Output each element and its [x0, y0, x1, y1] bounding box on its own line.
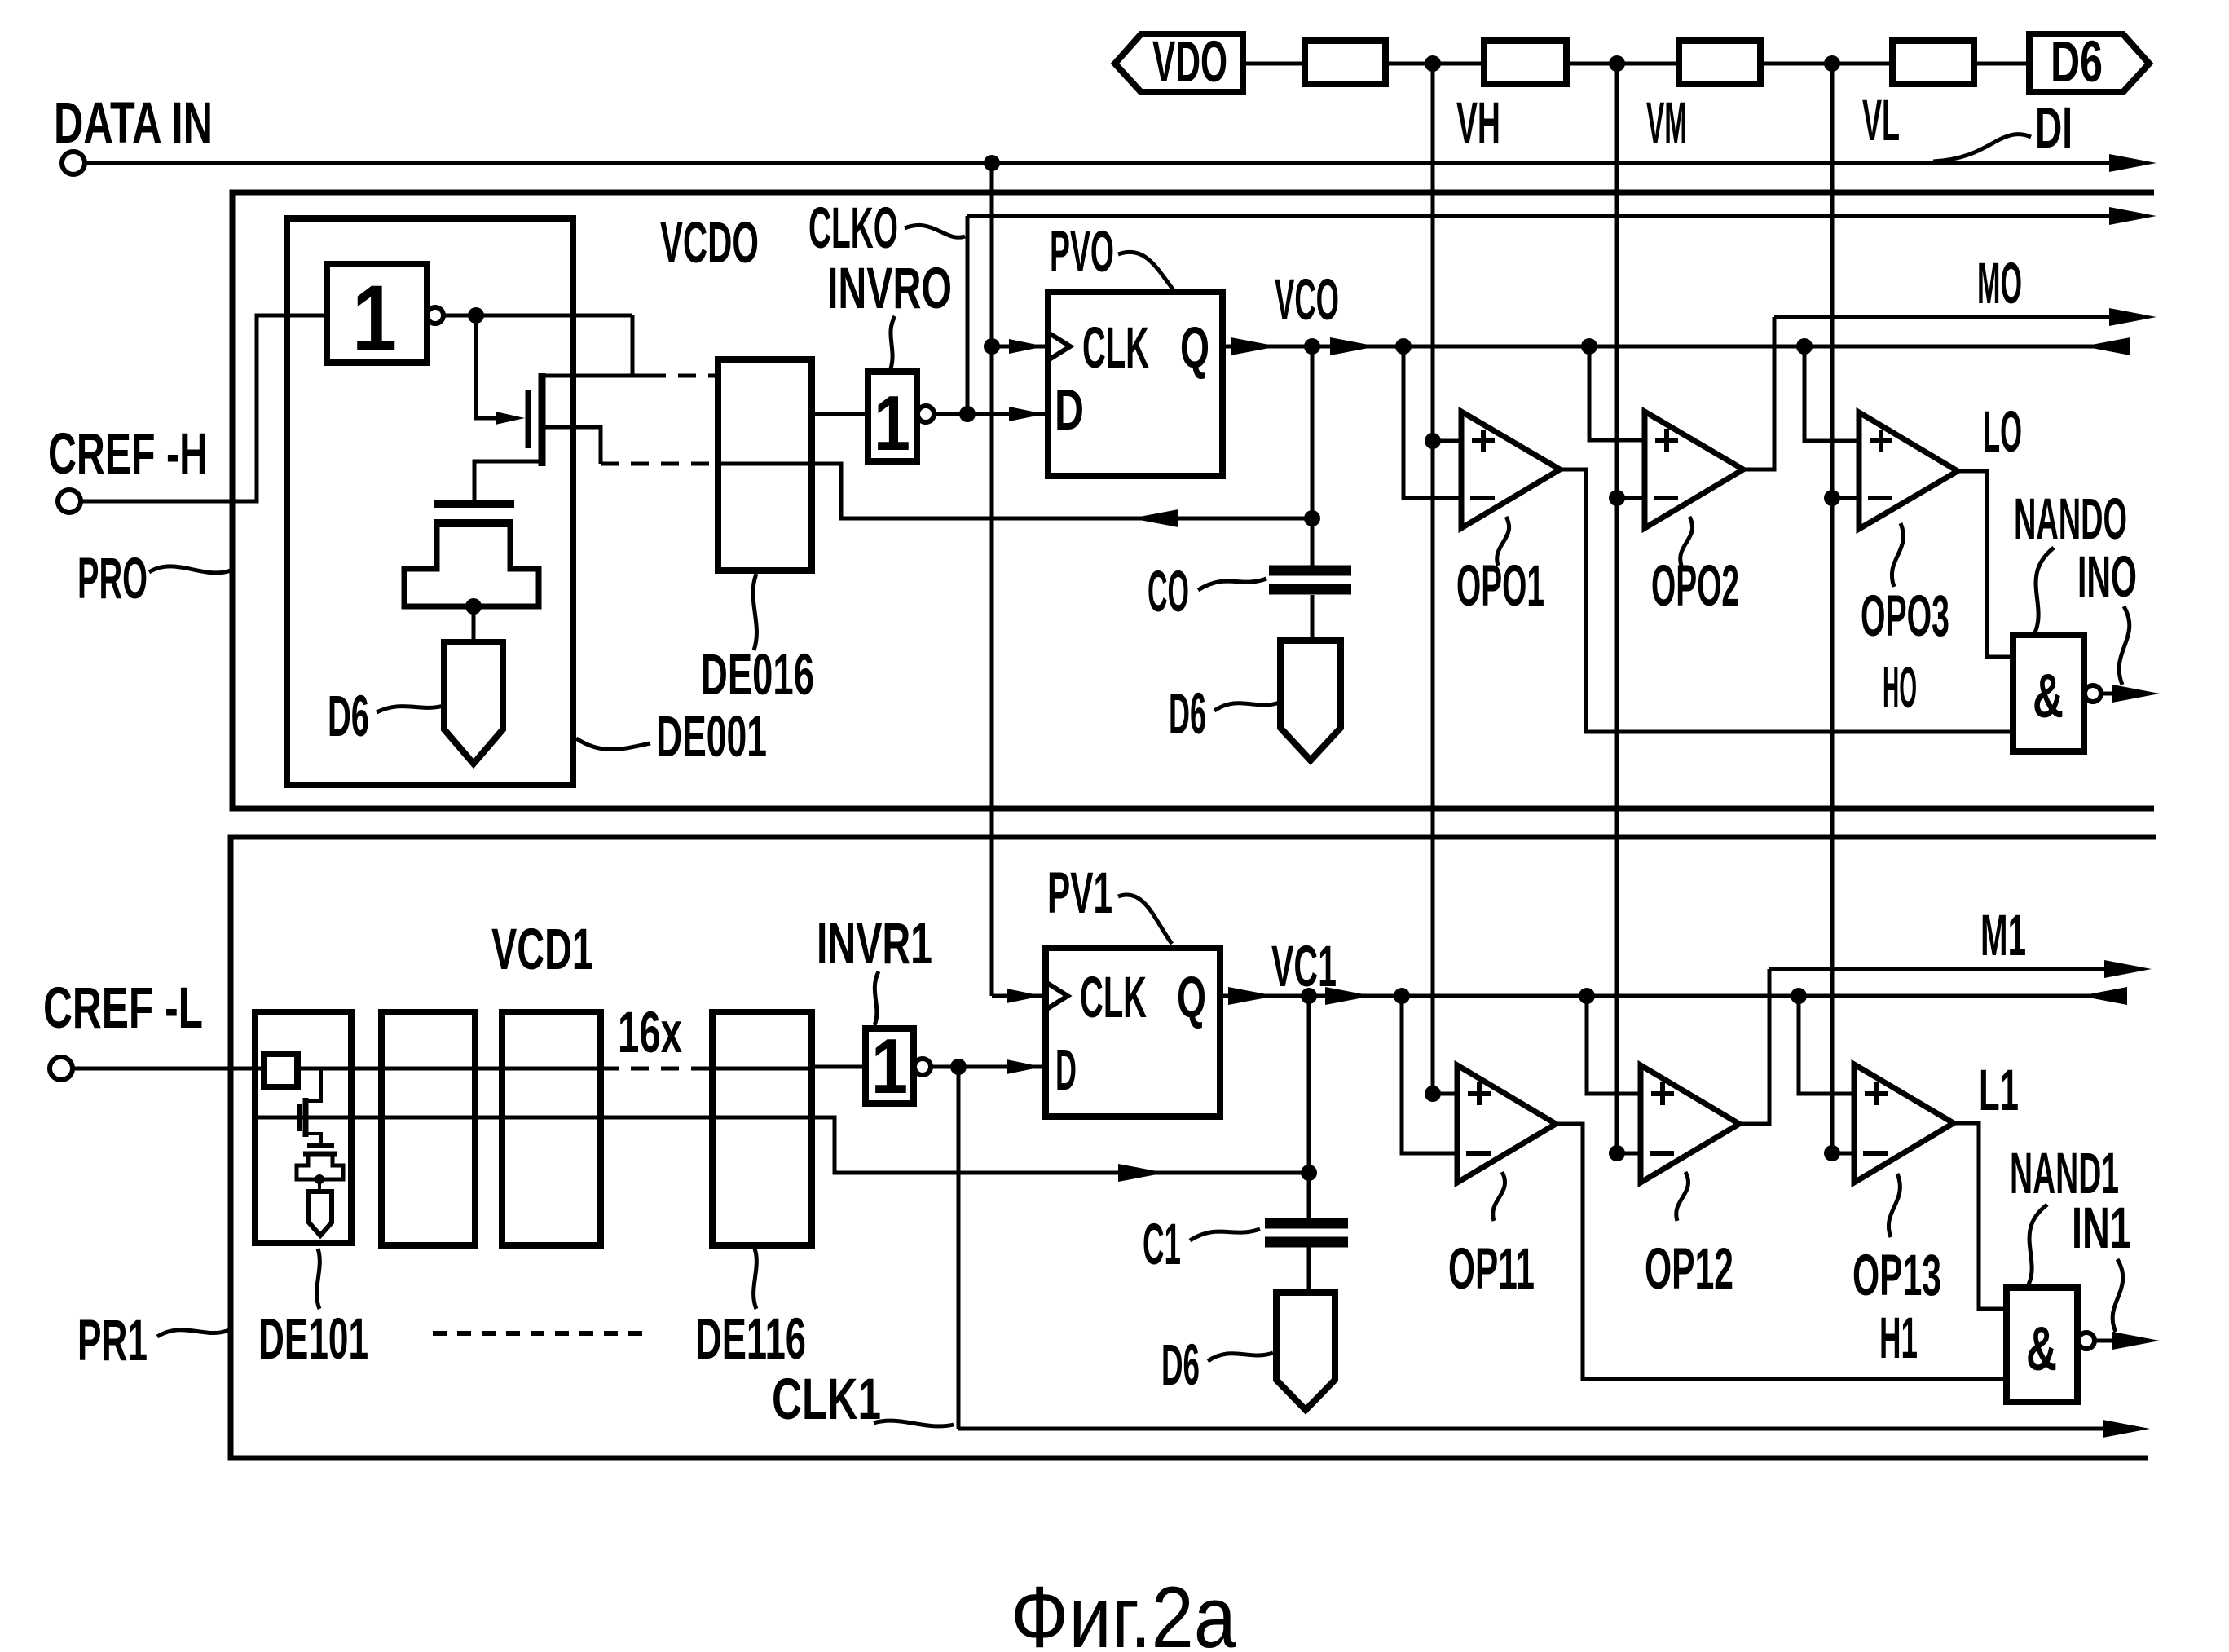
leader IN0 [2119, 606, 2130, 685]
svg-text:DI: DI [2035, 96, 2073, 161]
svg-text:1: 1 [352, 267, 397, 371]
wire rail VDO to R1 [1243, 62, 1305, 66]
wire DE016 divider [718, 462, 812, 466]
node VH tap [1425, 55, 1441, 72]
svg-text:H1: H1 [1879, 1306, 1918, 1371]
leader PRO [149, 566, 231, 573]
leader IN1 [2112, 1259, 2123, 1332]
op-amp OP01 [1461, 412, 1560, 528]
leader OP11 [1493, 1172, 1505, 1221]
svg-text:DATA IN: DATA IN [54, 91, 213, 156]
capacitor C0 [1269, 566, 1351, 576]
wire OP12 out to M1 [1739, 969, 1769, 1124]
wire CLK1 riser [957, 1067, 961, 1429]
node feedback C0 [1304, 510, 1320, 526]
svg-text:INO: INO [2077, 545, 2137, 610]
wire VL vertical [1830, 64, 1835, 1153]
resistor R4 [1892, 41, 1974, 84]
leader C1 [1190, 1229, 1260, 1240]
node Q2 source [465, 598, 482, 615]
svg-text:VCDO: VCDO [660, 211, 759, 275]
leader DE016 [753, 574, 756, 650]
ground pin D6 DE001 [444, 642, 503, 764]
wire C0 to ground pin [1311, 595, 1315, 641]
leader DI [1933, 134, 2031, 161]
leader OP03 [1892, 523, 1903, 587]
wire VC1 bus [1220, 994, 2108, 998]
dashes VCD1 separator [433, 1331, 648, 1336]
wire PV0 CLK input [992, 345, 1048, 349]
svg-text:L1: L1 [1979, 1059, 2019, 1123]
svg-text:D6: D6 [1169, 682, 1206, 747]
node VM minus lower [1609, 1145, 1625, 1161]
svg-text:PRO: PRO [77, 547, 148, 611]
op-amp OP03 [1859, 412, 1958, 529]
wire OP03 plus [1804, 346, 1859, 441]
svg-text:VH: VH [1456, 91, 1500, 156]
node DATA IN riser [984, 155, 1000, 171]
leader CLKO [905, 225, 965, 237]
flip-flop PV0 box [1048, 292, 1222, 476]
terminal DATA IN [62, 152, 85, 174]
wire VCD1 signal [297, 1067, 601, 1071]
svg-text:D6: D6 [1161, 1333, 1200, 1398]
op-amp OP11 [1457, 1065, 1556, 1183]
wire CLK0 bus [967, 214, 2111, 218]
wire OP11 plus [1433, 1092, 1457, 1096]
wire DE001 lower port [545, 427, 601, 464]
node VL minus lower [1824, 1145, 1840, 1161]
svg-text:VCO: VCO [1275, 268, 1339, 333]
pin PV1 clock triangle [1046, 982, 1068, 1010]
resistor R3 [1679, 41, 1760, 84]
block DE101 [255, 1012, 351, 1243]
node CLK0 junction [959, 406, 976, 422]
wire DE116 to INVR1 [812, 1065, 866, 1069]
svg-text:DE116: DE116 [695, 1307, 806, 1372]
wire IN0 out [2101, 692, 2119, 696]
svg-text:HO: HO [1883, 656, 1917, 720]
svg-text:CLKO: CLKO [808, 196, 898, 261]
transistor Q2 body [404, 526, 539, 606]
wire Q1 drain [545, 374, 632, 378]
transistor DE101b body [297, 1156, 343, 1179]
svg-text:1: 1 [871, 1023, 908, 1110]
transistor DE101 gate bar [297, 1104, 302, 1131]
node VC0 op02 [1581, 338, 1597, 355]
svg-text:PR1: PR1 [77, 1309, 148, 1373]
transistor DE101 channel bar [303, 1098, 309, 1137]
transistor DE101b gate bar [307, 1143, 334, 1148]
svg-text:C1: C1 [1143, 1213, 1181, 1277]
wire Q1 source [474, 461, 542, 500]
node VC0 C0 [1304, 338, 1320, 355]
svg-text:PVO: PVO [1050, 220, 1114, 284]
wire OP03 minus [1832, 496, 1859, 500]
wire dashed DE001 to DE016 upper [648, 374, 718, 378]
wire CREF-H input [80, 315, 327, 501]
transistor Q2 channel bar [434, 519, 513, 527]
leader NANDO [2035, 548, 2054, 632]
svg-text:Фиг.2а: Фиг.2а [1011, 1568, 1236, 1652]
wire INVR1 to PV1 D [931, 1065, 1046, 1069]
svg-text:16x: 16x [618, 1001, 682, 1065]
leader CO [1198, 579, 1266, 590]
transistor DE101b channel bar [303, 1152, 337, 1157]
wire dashed VCD1 signal [601, 1067, 712, 1071]
svg-text:OPO1: OPO1 [1456, 554, 1544, 619]
leader D6 C0 [1214, 703, 1280, 711]
leader D6 C1 [1208, 1353, 1273, 1361]
svg-text:DE016: DE016 [701, 643, 814, 707]
node VH plus [1425, 433, 1441, 449]
leader DE116 [754, 1249, 757, 1309]
block PR1 outline [231, 837, 2156, 1458]
pin PV0 clock triangle [1048, 333, 1070, 360]
bubble NAND1 [2078, 1333, 2095, 1349]
svg-text:OP11: OP11 [1448, 1237, 1535, 1302]
leader NAND1 [2029, 1205, 2047, 1284]
wire C1 to ground pin [1307, 1247, 1311, 1293]
svg-text:&: & [2033, 662, 2064, 731]
node VH plus lower [1425, 1086, 1441, 1102]
block PRO outline [232, 192, 2154, 808]
wire DATA IN bus [84, 161, 2111, 165]
svg-text:VCD1: VCD1 [491, 918, 593, 982]
wire DE016 to INVR0 [812, 412, 868, 416]
svg-text:Q: Q [1177, 966, 1206, 1030]
svg-text:IN1: IN1 [2072, 1196, 2131, 1261]
svg-text:LO: LO [1983, 400, 2022, 465]
svg-text:Q: Q [1180, 316, 1209, 381]
transistor Q2 gate bar [434, 500, 514, 508]
op-amp OP02 [1645, 412, 1743, 528]
bubble INVR1 [914, 1059, 931, 1075]
terminal CREF-L [50, 1057, 73, 1080]
transistor Q1 gate bar [526, 390, 531, 448]
node VM tap [1609, 55, 1625, 72]
wire M0 bus [1774, 315, 2111, 319]
wire DE001 upper port step [632, 315, 648, 376]
leader PVO [1118, 252, 1174, 290]
node C1 feedback [1301, 1165, 1317, 1181]
block DE103 [502, 1012, 601, 1245]
svg-text:M1: M1 [1980, 904, 2026, 968]
power tag D6 [2029, 34, 2149, 92]
wire VC0 to C0 [1311, 346, 1315, 566]
node PV0 CLK tap [984, 338, 1000, 355]
svg-text:CO: CO [1148, 560, 1189, 624]
wire OP01 out to H0 [1560, 469, 2013, 732]
leader OP02 [1681, 517, 1693, 566]
svg-text:1: 1 [874, 380, 910, 467]
svg-text:&: & [2026, 1315, 2057, 1384]
wire rail R1 to R2 [1385, 62, 1484, 66]
node DE001 gate [468, 307, 484, 324]
wire Q2 to ground pin [472, 606, 476, 642]
resistor R2 [1484, 41, 1566, 84]
svg-text:OPO3: OPO3 [1861, 584, 1949, 649]
wire OP02 minus [1617, 496, 1645, 500]
wire OP13 out to NAND1 [1954, 1123, 2007, 1309]
bubble DE001-1 out [427, 307, 443, 324]
gate NAND0 box [2013, 635, 2084, 751]
node VC0 op03 [1796, 338, 1813, 355]
block DE001 outline [287, 218, 573, 785]
ground pin D6 C0 [1280, 641, 1341, 760]
transistor Q1 channel bar [539, 373, 546, 466]
node VC1 op11 [1394, 988, 1410, 1004]
wire DE001 gate drop [476, 315, 496, 418]
svg-text:CLK1: CLK1 [772, 1368, 881, 1432]
wire DATA riser [990, 163, 994, 996]
ground pin D6 C1 [1276, 1293, 1335, 1410]
wire OP01 minus [1403, 346, 1461, 498]
wire feedback to DE016 [812, 464, 1312, 518]
wire VM vertical [1615, 64, 1619, 1153]
svg-text:DE101: DE101 [258, 1307, 368, 1372]
leader OP01 [1497, 517, 1509, 566]
wire OP11 out to H1 [1556, 1124, 2007, 1379]
ground pin D6 DE101 [309, 1192, 332, 1236]
op-amp OP13 [1854, 1064, 1954, 1183]
node VC1 op12 [1579, 988, 1595, 1004]
block DE102 [381, 1012, 475, 1245]
svg-text:D6: D6 [328, 685, 369, 749]
svg-text:MO: MO [1977, 252, 2022, 316]
element DE101 input box [264, 1054, 297, 1087]
svg-text:INVRO: INVRO [827, 257, 952, 321]
leader OP13 [1888, 1174, 1900, 1237]
svg-text:VDO: VDO [1152, 30, 1227, 95]
terminal CREF-H [58, 490, 81, 513]
power tag VDO [1115, 34, 1243, 92]
op-amp OP12 [1641, 1065, 1739, 1183]
inverter INVR0 box [868, 372, 917, 461]
svg-text:DE001: DE001 [656, 705, 767, 769]
resistor R1 [1305, 41, 1385, 84]
leader PR1 [157, 1330, 229, 1337]
inverter INVR1 box [866, 1029, 914, 1104]
svg-text:INVR1: INVR1 [817, 912, 932, 976]
svg-text:PV1: PV1 [1047, 861, 1112, 926]
wire DE001 inverter out [443, 314, 632, 318]
wire rail R4 to D6 tag [1974, 62, 2029, 66]
svg-text:CREF -L: CREF -L [43, 976, 203, 1041]
node CLK1 junction [950, 1059, 967, 1075]
inverter DE001-1 box [327, 264, 427, 363]
leader OP12 [1676, 1172, 1689, 1221]
gate NAND1 box [2007, 1288, 2077, 1402]
wire OP01 plus [1433, 439, 1461, 443]
node VL tap [1824, 55, 1840, 72]
wire OP12 minus [1617, 1152, 1641, 1156]
wire VCD1 return rail [256, 1117, 1309, 1173]
wire CLK1 bus [958, 1427, 2103, 1431]
svg-text:CREF -H: CREF -H [48, 422, 208, 487]
wire CREF-L input [72, 1067, 264, 1071]
wire dashed DE001 to DE016 lower [601, 462, 718, 466]
svg-text:VL: VL [1862, 89, 1900, 153]
svg-text:NANDO: NANDO [2014, 487, 2127, 552]
svg-text:D: D [1055, 1038, 1077, 1103]
leader INVRO [891, 316, 895, 368]
wire CLK0 riser [966, 216, 970, 414]
wire OP12 plus [1587, 996, 1641, 1094]
svg-text:CLK: CLK [1080, 966, 1147, 1030]
wire OP02 plus [1589, 346, 1645, 440]
wire VC1 to C1 [1307, 996, 1311, 1218]
bubble NAND0 [2085, 685, 2101, 702]
node VC1 C1 [1301, 988, 1317, 1004]
wire IN1 out [2095, 1339, 2112, 1343]
node VC1 op13 [1791, 988, 1807, 1004]
leader DE101 [317, 1249, 320, 1309]
svg-text:VM: VM [1646, 91, 1687, 156]
block DE016 [718, 359, 812, 570]
wire DE101 gate drop [307, 1068, 321, 1101]
wire OP03 out to NAND0 [1958, 471, 2013, 657]
capacitor C1 [1265, 1218, 1348, 1229]
svg-text:D: D [1055, 378, 1084, 443]
node DE101 source [315, 1174, 324, 1184]
wire rail R2 to R3 [1566, 62, 1679, 66]
leader DE001 [576, 738, 650, 750]
leader PV1 [1118, 895, 1172, 944]
leader CLK1 [874, 1421, 954, 1426]
wire OP11 minus [1402, 996, 1457, 1153]
svg-text:CLK: CLK [1082, 316, 1149, 381]
block DE116 [712, 1012, 812, 1245]
wire M1 bus [1769, 967, 2104, 971]
node VC0 op01 [1395, 338, 1412, 355]
svg-text:OP13: OP13 [1852, 1244, 1941, 1308]
wire PV1 CLK input [992, 994, 1046, 998]
wire OP02 out to M0 [1743, 317, 1774, 469]
node VL minus [1824, 490, 1840, 506]
leader D6 DE001 [377, 706, 443, 712]
svg-text:OP12: OP12 [1645, 1237, 1733, 1302]
wire rail R3 to R4 [1760, 62, 1892, 66]
leader INVR1 [874, 971, 879, 1025]
wire DE116 through [712, 1067, 812, 1071]
wire VH vertical [1431, 64, 1435, 1094]
wire DE101 channel step [306, 1134, 321, 1144]
flip-flop PV1 box [1046, 948, 1220, 1117]
svg-text:OPO2: OPO2 [1651, 554, 1739, 619]
node VM minus [1609, 490, 1625, 506]
wire INVR0 to PV0 D [934, 412, 1048, 416]
bubble INVR0 [918, 406, 934, 422]
svg-text:D6: D6 [2051, 30, 2103, 95]
wire VC0 bus [1222, 345, 2111, 349]
wire OP13 plus [1799, 996, 1854, 1094]
wire OP13 minus [1832, 1152, 1854, 1156]
wire DE101 to mini pin [318, 1179, 321, 1192]
